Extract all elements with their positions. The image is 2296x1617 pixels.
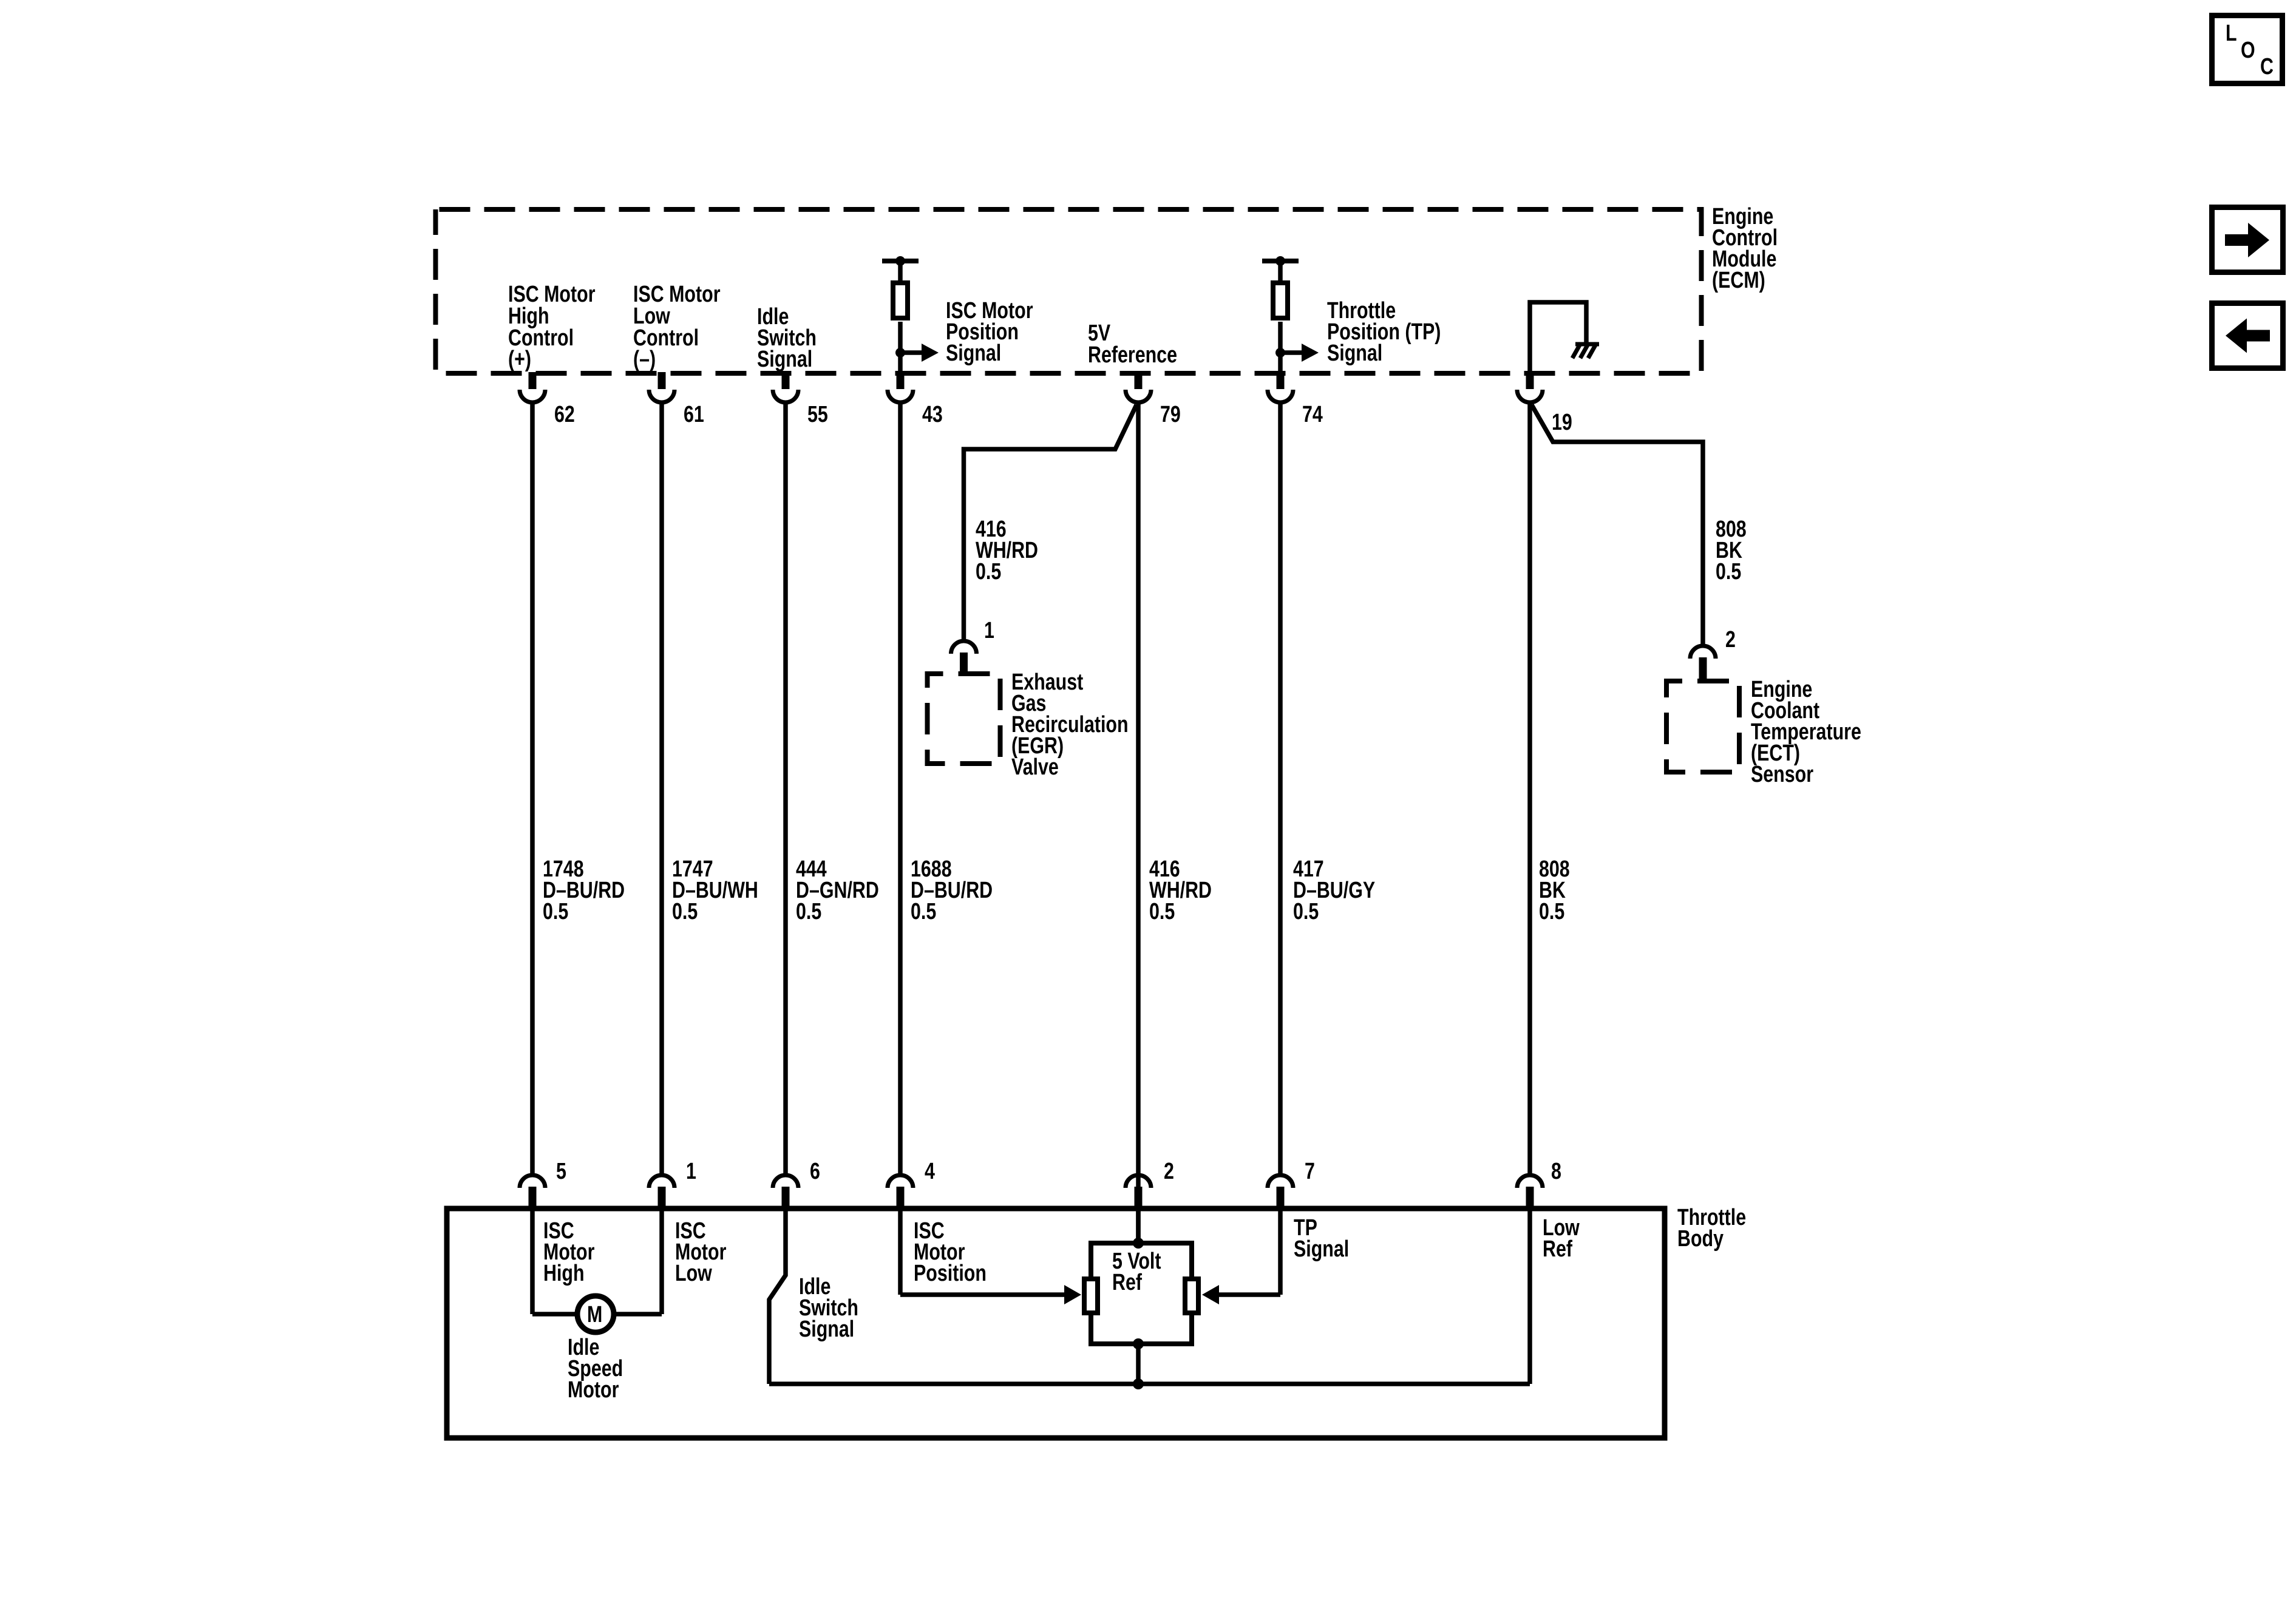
svg-text:0.5: 0.5 bbox=[672, 899, 698, 924]
svg-text:0.5: 0.5 bbox=[1149, 899, 1175, 924]
svg-text:19: 19 bbox=[1552, 410, 1572, 435]
svg-text:0.5: 0.5 bbox=[543, 899, 568, 924]
svg-text:Motor: Motor bbox=[568, 1377, 619, 1403]
svg-text:L: L bbox=[2226, 21, 2237, 46]
svg-text:Signal: Signal bbox=[799, 1317, 854, 1342]
svg-text:Body: Body bbox=[1677, 1226, 1724, 1252]
svg-text:(–): (–) bbox=[633, 347, 656, 372]
svg-text:55: 55 bbox=[807, 402, 828, 427]
svg-text:Reference: Reference bbox=[1088, 342, 1177, 368]
svg-text:74: 74 bbox=[1302, 402, 1323, 427]
svg-text:Ref: Ref bbox=[1112, 1270, 1142, 1295]
svg-text:0.5: 0.5 bbox=[911, 899, 936, 924]
svg-text:Ref: Ref bbox=[1543, 1236, 1572, 1262]
svg-text:2: 2 bbox=[1164, 1159, 1174, 1184]
svg-text:C: C bbox=[2260, 54, 2274, 80]
svg-text:5: 5 bbox=[556, 1159, 566, 1184]
svg-text:Valve: Valve bbox=[1011, 754, 1059, 780]
svg-text:7: 7 bbox=[1305, 1159, 1315, 1184]
svg-text:4: 4 bbox=[925, 1159, 935, 1184]
svg-text:Position: Position bbox=[914, 1261, 987, 1286]
svg-text:61: 61 bbox=[684, 402, 704, 427]
svg-text:79: 79 bbox=[1160, 402, 1181, 427]
svg-text:High: High bbox=[543, 1261, 585, 1286]
svg-text:0.5: 0.5 bbox=[1539, 899, 1564, 924]
svg-text:0.5: 0.5 bbox=[1716, 559, 1741, 585]
svg-text:M: M bbox=[587, 1302, 602, 1327]
svg-text:(+): (+) bbox=[508, 347, 531, 372]
svg-text:0.5: 0.5 bbox=[1293, 899, 1319, 924]
svg-text:1: 1 bbox=[984, 618, 994, 643]
svg-text:Sensor: Sensor bbox=[1751, 762, 1813, 787]
svg-text:Signal: Signal bbox=[757, 347, 812, 372]
svg-text:0.5: 0.5 bbox=[976, 559, 1001, 585]
svg-text:Signal: Signal bbox=[946, 341, 1001, 366]
svg-text:Low: Low bbox=[675, 1261, 712, 1286]
svg-text:1: 1 bbox=[686, 1159, 696, 1184]
svg-text:O: O bbox=[2241, 38, 2255, 63]
svg-text:43: 43 bbox=[922, 402, 943, 427]
svg-text:Signal: Signal bbox=[1327, 341, 1382, 366]
svg-text:6: 6 bbox=[810, 1159, 820, 1184]
svg-text:Signal: Signal bbox=[1294, 1236, 1349, 1262]
svg-text:8: 8 bbox=[1551, 1159, 1561, 1184]
svg-text:62: 62 bbox=[554, 402, 575, 427]
svg-text:2: 2 bbox=[1725, 627, 1736, 653]
svg-text:(ECM): (ECM) bbox=[1712, 268, 1765, 293]
svg-text:0.5: 0.5 bbox=[796, 899, 821, 924]
